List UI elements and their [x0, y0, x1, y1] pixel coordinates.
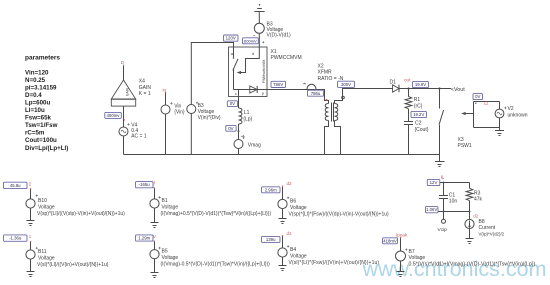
ground (B11): [27, 272, 35, 277]
PWM switch subcircuit X1 PWMCCMVM: [229, 47, 302, 97]
svg-text:V(Ip)*V(d2)/2: V(Ip)*V(d2)/2: [479, 231, 505, 236]
svg-text:R1: R1: [414, 97, 421, 103]
svg-text:-1.36u: -1.36u: [9, 236, 22, 241]
ground (B10): [27, 221, 35, 226]
svg-text:V(sl)*{Ll}*{Fsw}/((V(in)+V(out: V(sl)*{Ll}*{Fsw}/((V(in)+V(out)/{N})+1u): [289, 260, 380, 266]
svg-text:rC=5m: rC=5m: [25, 130, 45, 137]
wire X3 control loop: [474, 102, 500, 128]
ground (B6): [279, 219, 287, 224]
svg-text:400mv: 400mv: [107, 113, 121, 118]
current probe on p wire: [307, 84, 316, 89]
svg-text:V(D)-V(d1): V(D)-V(d1): [267, 33, 292, 39]
svg-text:D=0.4: D=0.4: [25, 92, 42, 99]
svg-text:V(sp)*{Ll}/((V(slp)-V(in)+V(ou: V(sp)*{Ll}/((V(slp)-V(in)+V(out)/{N})+1u…: [37, 211, 125, 217]
svg-text:PWMCCMVM: PWMCCMVM: [271, 55, 302, 61]
svg-text:139u: 139u: [266, 237, 276, 242]
inductor L1 {Lp}: [239, 108, 253, 124]
svg-text:Ipeak: Ipeak: [396, 232, 408, 237]
svg-text:<Vout: <Vout: [451, 87, 465, 93]
source B3 V(D)-V(d1) (top): [253, 22, 291, 44]
probe Vcip: [443, 212, 445, 220]
svg-text:X4: X4: [139, 79, 145, 85]
svg-text:B4: B4: [290, 247, 296, 253]
svg-text:Vcip: Vcip: [438, 227, 448, 233]
wire C1 bottom: [443, 199, 445, 212]
wire B11 node stub: [30, 242, 32, 250]
svg-text:(I(Vmag)-0.5*(V(D)-V(d1))*{Tsw: (I(Vmag)-0.5*(V(D)-V(d1))*{Tsw}*V(in)/({…: [161, 262, 271, 268]
node dot markers: [30, 65, 444, 243]
svg-text:Voltage: Voltage: [162, 255, 179, 261]
wire transformer secondary bottom to rail: [335, 121, 341, 155]
wire B7 to ground: [400, 261, 402, 272]
svg-text:B10: B10: [38, 198, 47, 204]
svg-text:786u: 786u: [311, 91, 321, 96]
source B1: [150, 196, 272, 217]
svg-text:V(in)*{Div}: V(in)*{Div}: [198, 115, 221, 121]
svg-text:PWMswitchVM: PWMswitchVM: [262, 60, 266, 84]
voltage readout box 300V: [338, 81, 355, 87]
resistor R1 {rC}: [405, 97, 423, 110]
source B10: [26, 194, 125, 217]
svg-text:B5: B5: [162, 249, 168, 255]
svg-text:B6: B6: [290, 199, 296, 205]
svg-text:0V: 0V: [228, 126, 233, 131]
svg-text:Cout=100u: Cout=100u: [25, 137, 57, 144]
wire transformer secondary up to D1: [335, 89, 393, 104]
junction X3 tap: [438, 87, 440, 89]
source B11: [26, 247, 109, 268]
wire B3 top to X1 terminal d: [258, 33, 260, 47]
svg-text:12V: 12V: [430, 180, 438, 185]
svg-text:V(sl)*{Ll}/((V(in)+V(out)/{N}): V(sl)*{Ll}/((V(in)+V(out)/{N})+1u): [37, 262, 109, 268]
svg-text:10n: 10n: [449, 199, 458, 205]
voltage readout box 120V: [224, 35, 239, 41]
svg-text:300V: 300V: [341, 82, 351, 87]
svg-text:Voltage: Voltage: [290, 205, 307, 211]
voltage readout box 2.96m: [262, 187, 281, 193]
wire 12V node to C1 and R3: [440, 183, 470, 196]
X3 control arrow: [465, 113, 474, 115]
source Vin {Vin}: [161, 102, 185, 115]
op-amp gain block X4: [111, 79, 151, 106]
svg-text:{Vin}: {Vin}: [174, 110, 185, 116]
wire R1 to C2: [408, 109, 410, 122]
ground (B1): [151, 223, 159, 228]
wire X1 p to transformer: [267, 90, 329, 104]
svg-text:N=0.25: N=0.25: [25, 77, 46, 84]
svg-text:Tsw=1/Fsw: Tsw=1/Fsw: [25, 122, 58, 129]
svg-text:B11: B11: [38, 249, 47, 255]
svg-text:Voltage: Voltage: [290, 254, 307, 260]
svg-text:GAIN: GAIN: [126, 87, 130, 96]
wire gain output to V4: [123, 106, 125, 127]
voltage readout box 786V: [271, 81, 286, 87]
voltage readout box 400mv: [105, 112, 122, 118]
svg-text:Lp=600u: Lp=600u: [25, 100, 50, 107]
svg-text:X3: X3: [458, 137, 464, 143]
source B6: [278, 197, 389, 218]
svg-text:B8: B8: [479, 219, 485, 225]
wire B8 to ground: [469, 229, 471, 239]
source B3 V(in)*{Div}: [187, 102, 221, 121]
ground (B4): [279, 266, 287, 271]
diode D1: [390, 80, 400, 93]
source B7: [30, 65, 536, 268]
svg-text:2.96m: 2.96m: [265, 187, 277, 192]
wire X1 terminal c down: [238, 90, 240, 109]
svg-text:1.29m: 1.29m: [138, 236, 150, 241]
svg-text:{Cout}: {Cout}: [415, 127, 429, 133]
svg-text:C2: C2: [415, 120, 422, 126]
svg-text:11: 11: [484, 101, 489, 106]
ground (B8): [466, 239, 474, 244]
ground rail wire: [124, 154, 441, 156]
wire B10 to ground: [30, 208, 32, 220]
wire B7 node stub: [400, 237, 402, 251]
wire D1 to out node: [399, 88, 451, 90]
voltage readout box 139u: [262, 236, 281, 242]
svg-text:Vin=120: Vin=120: [25, 69, 49, 76]
svg-text:Voltage: Voltage: [409, 255, 426, 261]
resistor R3 47k: [466, 188, 482, 202]
wire Vmag to rail: [238, 149, 240, 155]
ground (below X3): [435, 155, 445, 167]
svg-text:0V: 0V: [475, 94, 480, 99]
switch X3 PSW1: [439, 89, 472, 155]
svg-text:{Lp}: {Lp}: [243, 117, 252, 123]
svg-text:pi=3.14159: pi=3.14159: [25, 84, 57, 91]
svg-text:d1: d1: [287, 231, 293, 236]
svg-text:X1: X1: [271, 49, 277, 55]
voltage readout box 19.9V: [413, 81, 429, 87]
svg-text:Current: Current: [479, 225, 496, 231]
svg-text:Voltage: Voltage: [162, 205, 179, 211]
svg-text:c: c: [235, 91, 237, 96]
capacitor C2 {Cout}: [404, 120, 429, 132]
wire B4 to ground: [282, 257, 284, 265]
source V4 0.4 AC=1: [119, 122, 147, 139]
X1 internal d control path with arrow: [241, 47, 260, 73]
svg-text:GAIN: GAIN: [139, 85, 152, 91]
capacitor C1 10n: [439, 193, 457, 205]
wire B6 to ground: [282, 209, 284, 219]
svg-text:AC = 1: AC = 1: [131, 133, 147, 139]
svg-text:unknown: unknown: [508, 112, 528, 118]
voltage readout box -165u: [136, 182, 154, 188]
svg-text:V(sp)*{Ll}*{Fsw}/((V(dp)-V(in): V(sp)*{Ll}*{Fsw}/((V(dp)-V(in)-V(out)/{N…: [289, 212, 390, 218]
voltage readout box 600mV: [243, 38, 259, 44]
svg-text:Ll=10u: Ll=10u: [25, 107, 45, 114]
svg-text:19.2V: 19.2V: [413, 112, 424, 117]
svg-text:-165u: -165u: [139, 182, 151, 187]
X1 internal switch: [233, 47, 235, 90]
voltage readout box 19.2V: [411, 111, 427, 117]
svg-text:d: d: [252, 51, 254, 56]
wire B10 node stub: [30, 189, 32, 200]
wire D node to gain input: [123, 65, 125, 80]
wire transformer primary bottom to rail: [325, 121, 329, 155]
junction dot at L1/Vmag: [238, 130, 240, 132]
svg-text:Fsw=65k: Fsw=65k: [25, 115, 52, 122]
ground (B7): [397, 272, 405, 277]
svg-text:0.5*(V(s)*V(d1)+I(Vmag)-(V(D)-: 0.5*(V(s)*V(d1)+I(Vmag)-(V(D)-V(d1))*{Ts…: [409, 261, 536, 267]
svg-text:X2: X2: [318, 64, 324, 70]
wire R3 bottom: [469, 201, 471, 220]
source B8 current: [465, 219, 505, 237]
wire bottom node: [438, 211, 470, 213]
svg-text:600mV: 600mV: [244, 38, 257, 43]
wire B6 node stub: [282, 186, 284, 199]
wire out node down to R1: [408, 89, 410, 97]
ground (B5): [151, 273, 159, 278]
svg-text:XFMR: XFMR: [318, 70, 333, 76]
ground (below V2): [495, 128, 504, 136]
wire B3 up to X1 terminal a: [191, 43, 233, 105]
svg-text:786V: 786V: [273, 82, 283, 87]
voltage readout box 12V: [427, 179, 440, 185]
source B5: [150, 247, 270, 268]
X1 internal diode: [234, 89, 268, 91]
svg-text:V2: V2: [508, 106, 514, 112]
voltage readout box 0V (below L1): [226, 125, 236, 131]
source Vmag: [234, 135, 261, 148]
wire B1 node stub: [154, 188, 156, 199]
transformer X2 XFMR RATIO = -N: [318, 64, 345, 122]
junction out: [407, 87, 409, 89]
parameters text block: [25, 55, 68, 152]
svg-text:B1: B1: [162, 198, 168, 204]
svg-text:d2: d2: [473, 213, 478, 218]
voltage readout box 1.29m: [136, 235, 154, 241]
svg-text:1.06V: 1.06V: [426, 207, 437, 212]
svg-text:d2: d2: [287, 181, 293, 186]
wire Vin to rail: [165, 114, 167, 155]
wire B1 to ground: [154, 208, 156, 222]
wire B3 to rail: [190, 114, 192, 155]
wire in node stub: [165, 93, 167, 106]
source B4: [278, 245, 379, 266]
wire B4 node stub: [282, 236, 284, 248]
svg-text:45.9u: 45.9u: [10, 183, 21, 188]
voltage readout box 0V (X3 control): [473, 94, 483, 100]
svg-text:0V: 0V: [230, 101, 235, 106]
ground (top): [259, 4, 261, 6]
voltage readout box -1.36u: [4, 235, 28, 241]
svg-text:parameters: parameters: [25, 55, 60, 62]
svg-text:(I(Vmag)+0.5*(V(D)-V(d1))*{Tsw: (I(Vmag)+0.5*(V(D)-V(d1))*{Tsw}*V(in)/({…: [161, 211, 272, 217]
wire V4 to ground rail: [123, 136, 125, 155]
svg-text:418mV: 418mV: [383, 238, 397, 243]
svg-text:120V: 120V: [226, 36, 236, 41]
svg-text:out: out: [404, 78, 411, 83]
voltage readout box 0V (above L1): [227, 101, 237, 107]
current readout box 786u: [308, 90, 324, 96]
svg-text:Vmag: Vmag: [248, 143, 261, 149]
svg-text:L1: L1: [244, 110, 250, 116]
svg-text:19.9V: 19.9V: [415, 82, 426, 87]
wire C2 to rail: [408, 125, 410, 155]
wire top ground to B3 source: [258, 12, 260, 24]
voltage readout box 1.06V: [426, 207, 439, 213]
svg-text:47k: 47k: [474, 197, 483, 203]
svg-text:Voltage: Voltage: [38, 256, 55, 262]
svg-text:K = 1: K = 1: [139, 91, 151, 97]
voltage readout box 418mV: [383, 238, 398, 244]
svg-text:Div=Lp/(Lp+Ll): Div=Lp/(Lp+Ll): [25, 145, 68, 152]
wire L1 to Vmag: [238, 124, 240, 140]
svg-text:PSW1: PSW1: [458, 143, 472, 149]
wire B5 to ground: [154, 259, 156, 273]
svg-text:{rC}: {rC}: [414, 104, 423, 110]
source V2 unknown: [495, 106, 528, 118]
wire B11 to ground: [30, 259, 32, 271]
voltage readout box 45.9u: [4, 182, 28, 188]
wire B5 node stub: [154, 241, 156, 250]
svg-text:Voltage: Voltage: [38, 205, 55, 211]
